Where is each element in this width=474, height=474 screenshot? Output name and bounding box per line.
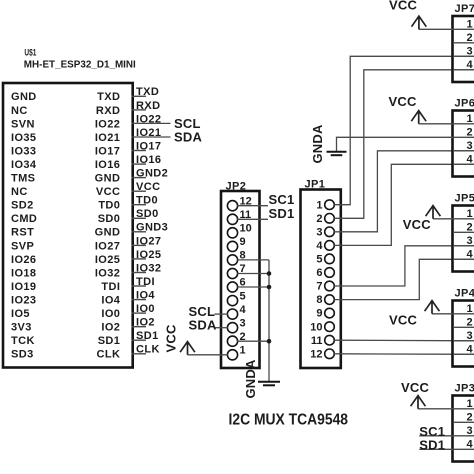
svg-text:GND3: GND3 [136,222,168,234]
svg-text:IO18: IO18 [11,267,36,279]
JP2 pin 10 pad circle [227,228,237,238]
JP1 pin 6 pad circle [325,268,335,278]
svg-text:9: 9 [316,308,322,320]
JP1 pin 1 pad circle [325,200,335,210]
svg-text:RXD: RXD [136,100,160,112]
JP1 pin 4 pad circle [325,241,335,251]
svg-text:IO19: IO19 [11,281,36,293]
JP2 pin 5 pad circle [227,296,237,306]
svg-text:2: 2 [467,221,473,233]
U$1 pin stub IO32 [132,272,147,274]
U$1 pin stub GND2 [132,177,147,179]
svg-text:3: 3 [467,140,473,152]
svg-text:IO16: IO16 [95,159,120,171]
supply symbol VCC arrow (at JP7 pin 1) [412,16,427,29]
U$1 pin stub IO4 [132,299,147,301]
svg-text:CLK: CLK [96,349,120,361]
svg-text:3: 3 [467,425,473,437]
svg-text:IO0: IO0 [136,303,155,315]
svg-text:1: 1 [467,113,473,125]
svg-text:VCC: VCC [96,186,120,198]
svg-text:3: 3 [467,235,473,247]
ground symbol GNDA below JP2 [258,381,280,383]
JP3 pin 4 line [453,448,474,450]
svg-text:4: 4 [467,343,474,355]
svg-text:1: 1 [316,199,322,211]
JP7 pin 3 line [453,55,474,57]
wire JP2 pin 7 (A1) to GNDA bus [237,273,269,275]
JP2 pin 3 pad circle [227,323,237,333]
wire net SDA from U$1 pin IO21 [132,136,171,138]
wire JP2 pin 6 (A0) to GNDA bus [237,286,269,288]
U$1 pin stub RXD [132,109,147,111]
JP4 pin 3 line [453,340,474,342]
svg-text:IO0: IO0 [101,308,120,320]
JP2 pin 6 pad circle [227,282,237,292]
svg-text:SD1: SD1 [269,206,295,221]
U$1 pin stub TD0 [132,204,147,206]
JP6 pin 4 line [453,163,474,165]
svg-text:SD1: SD1 [98,335,121,347]
svg-text:TD0: TD0 [136,195,158,207]
JP2 pin 4 pad circle [227,309,237,319]
svg-text:SD3: SD3 [11,349,34,361]
IC U$1 body outline [3,83,133,368]
svg-text:TXD: TXD [136,86,159,98]
svg-text:IO22: IO22 [136,113,161,125]
svg-text:IO26: IO26 [11,254,36,266]
svg-text:SD2: SD2 [11,200,34,212]
svg-text:10: 10 [240,223,252,235]
JP1 pin 5 pad circle [325,254,335,264]
JP4 pin 1 line [453,313,474,315]
JP1 pin 11 pad circle [325,335,335,345]
JP2 pin 2 pad circle [227,336,237,346]
U$1 pin stub VCC [132,190,147,192]
svg-text:TD0: TD0 [98,200,120,212]
svg-text:11: 11 [311,335,323,347]
JP2 pin 7 pad circle [227,268,237,278]
svg-text:SD1: SD1 [136,330,159,342]
svg-text:JP7: JP7 [455,3,474,15]
wire net SC1 to JP3 pin 3 [419,435,453,437]
svg-text:VCC: VCC [403,217,431,232]
wire JP2 pin 4 to net SCL [215,313,228,315]
wire GNDA vertical bus [268,260,270,382]
svg-text:IO35: IO35 [11,132,36,144]
svg-text:RXD: RXD [96,105,120,117]
svg-text:NC: NC [11,105,28,117]
wire JP2 pin 8 (A2) to GNDA bus [237,259,269,261]
svg-text:RST: RST [11,227,34,239]
JP2 pin 9 pad circle [227,241,237,251]
svg-text:IO16: IO16 [136,154,161,166]
svg-text:8: 8 [316,294,322,306]
wire JP4 pin 1 to VCC supply [432,313,453,315]
U$1 pin stub IO0 [132,312,147,314]
svg-text:2: 2 [467,126,473,138]
svg-text:TCK: TCK [11,335,35,347]
wire net SD1 to JP3 pin 4 [419,448,453,450]
U$1 pin stub IO27 [132,244,147,246]
svg-text:2: 2 [467,316,473,328]
U$1 pin stub IO17 [132,150,147,152]
svg-text:1: 1 [467,303,473,315]
svg-text:1: 1 [467,18,473,30]
wire JP2 pin 2 to GNDA bus [237,340,269,342]
wire JP2 pin 3 to net SDA [215,327,228,329]
svg-text:4: 4 [316,240,323,252]
svg-text:5: 5 [316,254,322,266]
svg-text:IO17: IO17 [136,140,161,152]
wire JP5 pin 1 to VCC supply [433,218,453,220]
svg-text:3: 3 [240,317,246,329]
svg-text:IO2: IO2 [101,322,120,334]
svg-text:IO34: IO34 [11,159,37,171]
svg-text:1: 1 [467,208,473,220]
JP5 pin 4 line [453,258,474,260]
wire JP2 pin 1 to VCC supply [188,354,228,356]
svg-text:JP4: JP4 [455,288,474,300]
JP6 pin 1 line [453,123,474,125]
svg-text:TDI: TDI [101,281,120,293]
JP6 pin 2 line [453,136,474,138]
svg-text:3: 3 [467,45,473,57]
svg-text:2: 2 [467,411,473,423]
svg-text:SD0: SD0 [136,208,159,220]
svg-text:SDA: SDA [174,130,202,145]
svg-text:IO4: IO4 [101,295,120,307]
svg-text:IO21: IO21 [136,127,161,139]
U$1 pin stub GND3 [132,231,147,233]
JP3 pin 3 line [453,435,474,437]
svg-text:IO21: IO21 [95,132,120,144]
JP5 pin 2 line [453,231,474,233]
svg-text:JP5: JP5 [455,193,474,205]
svg-text:10: 10 [310,321,322,333]
connector JP3 body outline [453,396,474,462]
svg-text:IO17: IO17 [95,145,120,157]
JP7 pin 4 line [453,69,474,71]
wire JP7 pin 1 to VCC supply [419,28,453,30]
wire JP1 pin 11 to JP4 pin 3 [334,339,474,342]
svg-text:GND: GND [11,91,37,103]
JP4 pin 2 line [453,326,474,328]
svg-text:VCC: VCC [401,380,429,395]
wire JP1 pin 4 to JP6 pin 4 [334,164,474,245]
connector JP6 body outline [453,111,474,177]
JP1 pin 12 pad circle [325,349,335,359]
supply symbol VCC arrow (at JP4 pin 1) [425,301,440,314]
svg-text:IO4: IO4 [136,290,155,302]
svg-text:VCC: VCC [164,324,179,352]
svg-text:4: 4 [467,59,474,71]
svg-text:TMS: TMS [11,173,35,185]
connector JP7 body outline [453,16,474,82]
wire JP2 pin 12 to net SC1 [237,205,268,207]
JP7 pin 2 line [453,42,474,44]
wire JP1 pin 7 to JP5 pin 3 [334,246,474,286]
svg-text:12: 12 [310,348,322,360]
svg-text:NC: NC [11,186,28,198]
JP1 pin 9 pad circle [325,308,335,318]
JP4 pin 4 line [453,353,474,355]
wire JP1 pin 2 to JP7 pin 4 [334,70,474,219]
U$1 pin stub CLK [132,353,147,355]
svg-text:GND: GND [95,227,121,239]
JP2 pin 8 pad circle [227,255,237,265]
wire JP2 pin 11 to net SD1 [237,218,268,220]
U$1 pin stub TXD [132,95,147,97]
junction at JP2 pin 2 wire and GNDA bus [267,339,272,344]
wire JP1 pin 3 to JP6 pin 3 [334,151,474,232]
svg-text:GNDA: GNDA [243,359,258,398]
JP1 pin 2 pad circle [325,214,335,224]
connector JP4 body outline [453,301,474,367]
svg-text:3V3: 3V3 [11,322,32,334]
JP3 pin 1 line [453,408,474,410]
wire JP6 pin 2 to GNDA ground [337,137,454,151]
junction at JP2 pin 7 wire and GNDA bus [267,271,272,276]
U$1 pin stub SD0 [132,217,147,219]
svg-text:GND2: GND2 [136,168,168,180]
svg-text:IO23: IO23 [11,295,36,307]
supply symbol VCC arrow (at JP3 pin 1) [411,396,426,409]
svg-text:7: 7 [316,281,322,293]
svg-text:1: 1 [240,345,246,357]
svg-text:4: 4 [467,438,474,450]
wire JP3 pin 1 to VCC supply [418,408,453,410]
svg-text:3: 3 [316,226,322,238]
U$1 pin stub IO16 [132,163,147,165]
svg-text:SD1: SD1 [419,438,445,453]
svg-text:1: 1 [467,398,473,410]
JP2 pin 12 pad circle [227,201,237,211]
svg-text:4: 4 [467,248,474,260]
connector JP1 body outline [301,190,341,369]
supply symbol VCC arrow (at JP5 pin 1) [426,206,441,219]
JP1 pin 7 pad circle [325,281,335,291]
JP3 pin 2 line [453,421,474,423]
U$1 pin stub SD1 [132,339,147,341]
svg-text:VCC: VCC [389,313,417,328]
svg-text:GND: GND [95,173,121,185]
wire JP1 pin 8 to JP5 pin 4 [334,259,474,299]
svg-text:VCC: VCC [389,94,417,109]
svg-text:IO33: IO33 [11,145,36,157]
svg-text:IO5: IO5 [11,308,30,320]
connector JP5 body outline [453,206,474,272]
wire net SCL from U$1 pin IO22 [132,122,171,124]
svg-text:3: 3 [467,330,473,342]
svg-text:JP6: JP6 [455,98,474,110]
svg-text:6: 6 [316,267,322,279]
svg-text:IO25: IO25 [95,254,120,266]
JP5 pin 3 line [453,245,474,247]
svg-text:SDA: SDA [189,318,217,333]
wire JP1 pin 1 to JP7 pin 3 [334,56,474,204]
JP6 pin 3 line [453,150,474,152]
JP2 pin 11 pad circle [227,214,237,224]
svg-text:VCC: VCC [389,0,417,12]
JP5 pin 1 line [453,218,474,220]
connector JP2 body outline [221,191,260,368]
svg-text:IO27: IO27 [136,235,161,247]
ground symbol GNDA (at JP6 pin 2) [327,151,347,153]
svg-text:IO2: IO2 [136,317,155,329]
svg-text:2: 2 [467,32,473,44]
JP1 pin 8 pad circle [325,295,335,305]
svg-text:IO32: IO32 [95,267,120,279]
svg-text:IO22: IO22 [95,118,120,130]
svg-text:VCC: VCC [136,181,160,193]
svg-text:SD0: SD0 [98,213,121,225]
U$1 pin stub TDI [132,285,147,287]
svg-text:TXD: TXD [97,91,120,103]
svg-text:SVP: SVP [11,240,34,252]
svg-text:5: 5 [240,290,246,302]
svg-text:9: 9 [240,236,246,248]
wire JP6 pin 1 to VCC supply [419,123,453,125]
JP1 pin 10 pad circle [325,322,335,332]
svg-text:JP3: JP3 [455,383,474,395]
supply symbol VCC arrow (at JP6 pin 1) [411,111,426,124]
svg-text:MH-ET_ESP32_D1_MINI: MH-ET_ESP32_D1_MINI [24,59,136,70]
svg-text:CMD: CMD [11,213,37,225]
svg-text:GNDA: GNDA [310,124,325,163]
svg-text:TDI: TDI [136,276,155,288]
svg-text:2: 2 [316,213,322,225]
svg-text:U$1: U$1 [24,47,36,58]
svg-text:I2C MUX TCA9548: I2C MUX TCA9548 [229,412,349,429]
junction at JP2 pin 6 wire and GNDA bus [267,285,272,290]
svg-text:IO27: IO27 [95,240,120,252]
svg-text:IO32: IO32 [136,262,161,274]
svg-text:IO25: IO25 [136,249,161,261]
svg-text:CLK: CLK [136,344,160,356]
JP1 pin 3 pad circle [325,227,335,237]
supply symbol VCC arrow (at JP2 pin 1) [180,342,195,355]
JP7 pin 1 line [453,28,474,30]
svg-text:4: 4 [240,304,247,316]
JP2 pin 1 pad circle [227,350,237,360]
U$1 pin stub IO25 [132,258,147,260]
svg-text:4: 4 [467,153,474,165]
wire JP1 pin 12 to JP4 pin 4 [334,353,474,356]
U$1 pin stub IO2 [132,326,147,328]
svg-text:SVN: SVN [11,118,35,130]
